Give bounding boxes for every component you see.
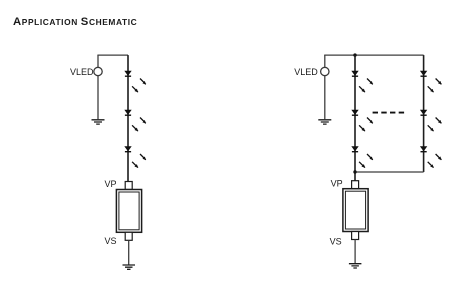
LED 1 (string A) [352,71,373,92]
wire: bottom rail (right circuit) [355,171,424,173]
svg-text:VLED: VLED [294,67,318,77]
LED 3 (string A) [352,147,373,168]
wire: LED string A (right circuit) [354,55,356,181]
LED 2 (string B) [421,110,442,131]
junction: bottom rail / string A [353,170,356,173]
wire: left box to ground [128,240,130,264]
terminal VLED (right) [321,67,329,75]
LED 2 (string A) [352,110,373,131]
svg-text:APPLICATION SCHEMATIC: APPLICATION SCHEMATIC [13,16,137,28]
regulator U2 (right, VP/VS box) [343,181,368,240]
wire: right box to ground [354,240,356,264]
regulator U1 (left, VP/VS box) [116,182,141,241]
wire: VLED terminal down to ground (right) [324,76,326,120]
ground (right, under VLED) [318,120,331,124]
continuation dashes (more LED strings) [373,112,405,114]
svg-text:VLED: VLED [70,67,94,77]
svg-text:VP: VP [104,179,116,189]
wire: VLED terminal up to top rail (left) [97,55,99,67]
wire: VLED terminal down to ground (left) [97,76,99,120]
ground (left, under VLED) [92,120,105,124]
junction: top rail / string A [353,53,356,56]
LED 1 (left string) [125,71,146,92]
svg-text:VS: VS [104,236,116,246]
svg-text:VP: VP [331,178,343,188]
LED 2 (left string) [125,110,146,131]
ground (left, under regulator) [123,265,136,269]
LED 3 (left string) [125,147,146,168]
terminal VLED (left) [94,67,102,75]
ground (right, under regulator) [349,264,362,268]
wire: top rail (left) [97,54,128,56]
wire: top rail (right) [324,54,423,56]
LED 3 (string B) [421,147,442,168]
wire: LED string B (right circuit) [423,55,425,172]
svg-text:VS: VS [330,237,342,247]
wire: VLED terminal up to top rail (right) [324,55,326,67]
wire: left LED string [127,55,129,181]
LED 1 (string B) [421,71,442,92]
